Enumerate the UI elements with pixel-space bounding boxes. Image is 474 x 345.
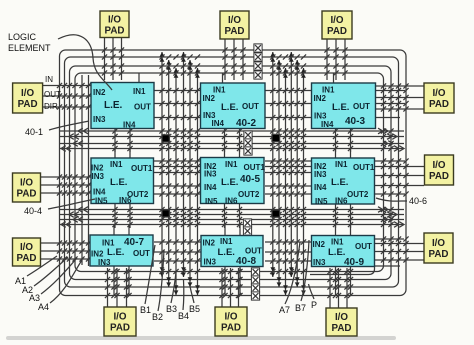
labels B1-B5 with leaders [140, 245, 200, 322]
svg-text:IN4: IN4 [321, 120, 334, 129]
svg-text:PAD: PAD [17, 189, 37, 200]
wires from I/O pad L3 [41, 243, 90, 259]
svg-text:PAD: PAD [105, 25, 125, 36]
I/O pad R3 [424, 233, 453, 263]
svg-text:40-7: 40-7 [124, 237, 144, 248]
svg-text:PAD: PAD [429, 99, 449, 110]
svg-text:I/O: I/O [108, 14, 121, 25]
row2 LE interconnect cols 1-2 [154, 161, 201, 194]
svg-text:40-4: 40-4 [24, 206, 42, 216]
I/O pad T3 [322, 11, 352, 39]
vertical channel between cols 1-2 [160, 52, 200, 295]
I/O pad R1 [424, 83, 454, 113]
svg-text:IN3: IN3 [204, 258, 217, 267]
horizontal channel between rows 2-3 [60, 207, 404, 228]
LE9 right side lines [375, 239, 404, 266]
svg-text:IN5: IN5 [315, 197, 328, 206]
svg-text:I/O: I/O [224, 312, 237, 323]
svg-text:IN2: IN2 [314, 94, 327, 103]
svg-text:IN3: IN3 [313, 258, 326, 267]
X-box stack bottom channel [251, 268, 259, 300]
row2 LE interconnect cols 2-3 [265, 161, 312, 194]
LE 1 input stubs [115, 73, 139, 152]
svg-text:IN4: IN4 [123, 121, 136, 130]
svg-text:L.E.: L.E. [110, 177, 127, 188]
wires from I/O pad B1 [108, 268, 127, 307]
svg-text:PAD: PAD [221, 323, 241, 334]
logic element LE 40-2 [201, 83, 266, 129]
svg-text:IN2: IN2 [313, 240, 326, 249]
I/O pad B2 [215, 307, 247, 336]
labels IN OUT DIR [44, 75, 61, 111]
wires from I/O pad T2 [225, 39, 243, 80]
row1 LE interconnect cols 2-3 [265, 91, 312, 118]
svg-text:PAD: PAD [327, 26, 347, 37]
svg-text:IN2: IN2 [203, 239, 216, 248]
svg-text:I/O: I/O [228, 15, 241, 26]
label 40-1 [25, 121, 89, 137]
svg-text:B7: B7 [295, 303, 306, 313]
svg-text:OUT1: OUT1 [244, 163, 266, 172]
labels A1-A4 with leaders [15, 256, 82, 312]
svg-text:40-9: 40-9 [344, 257, 364, 268]
row3 LE interconnect cols 1-2 [154, 242, 201, 261]
svg-text:IN: IN [45, 75, 53, 84]
ring conductor 4 [75, 73, 384, 272]
I/O pad L1 [13, 83, 43, 113]
svg-text:IN6: IN6 [225, 197, 238, 206]
LE 7 input stubs [114, 225, 129, 297]
label 40-6 [376, 196, 427, 206]
svg-text:40-2: 40-2 [236, 118, 256, 129]
logic element LE 40-4 [91, 158, 154, 206]
svg-text:PAD: PAD [332, 323, 352, 334]
wires from I/O pad T3 [327, 39, 345, 80]
svg-text:DIR: DIR [44, 102, 58, 111]
svg-text:OUT: OUT [242, 102, 259, 111]
LE6 right side lines [375, 161, 405, 194]
svg-text:L.E.: L.E. [104, 100, 123, 111]
I/O pad B3 [326, 308, 357, 336]
horizontal channel between rows 1-2 [60, 128, 404, 151]
svg-text:OUT: OUT [44, 90, 61, 99]
svg-text:OUT1: OUT1 [353, 163, 375, 172]
svg-text:L.E.: L.E. [221, 177, 238, 188]
svg-text:I/O: I/O [330, 15, 343, 26]
svg-text:OUT2: OUT2 [238, 190, 260, 199]
svg-text:OUT: OUT [245, 247, 262, 256]
svg-text:IN1: IN1 [220, 237, 233, 246]
wires from I/O pad R3 [375, 244, 424, 261]
I/O pad R2 [425, 155, 454, 185]
svg-text:OUT1: OUT1 [131, 164, 153, 173]
I/O pad T2 [220, 11, 249, 39]
svg-text:IN4: IN4 [212, 119, 225, 128]
svg-text:L.E.: L.E. [221, 102, 238, 113]
svg-text:IN2: IN2 [93, 88, 106, 97]
I/O pad L2 [13, 173, 41, 202]
svg-text:40-6: 40-6 [409, 196, 427, 206]
svg-text:IN3: IN3 [92, 172, 105, 181]
svg-text:LOGIC: LOGIC [8, 32, 37, 42]
svg-text:L.E.: L.E. [328, 247, 345, 258]
svg-text:I/O: I/O [432, 88, 445, 99]
svg-text:IN1: IN1 [225, 160, 238, 169]
label LOGIC ELEMENT [8, 32, 51, 53]
wires from I/O pad B2 [222, 268, 239, 307]
svg-text:I/O: I/O [20, 178, 33, 189]
svg-text:PAD: PAD [17, 253, 37, 264]
svg-text:OUT2: OUT2 [347, 190, 369, 199]
svg-text:I/O: I/O [113, 312, 126, 323]
I/O pad B1 [104, 307, 136, 336]
LE 5 input stubs [225, 149, 240, 229]
svg-text:L.E.: L.E. [107, 247, 124, 258]
svg-text:I/O: I/O [21, 88, 34, 99]
logic element LE 40-1 [91, 83, 154, 130]
wires from I/O pad B3 [330, 268, 347, 308]
svg-text:P: P [311, 300, 317, 310]
svg-text:IN3: IN3 [93, 115, 106, 124]
svg-text:IN1: IN1 [335, 160, 348, 169]
svg-text:PAD: PAD [429, 249, 449, 260]
svg-text:IN6: IN6 [119, 196, 132, 205]
svg-text:A4: A4 [38, 302, 49, 312]
svg-text:IN6: IN6 [335, 197, 348, 206]
LE 2 input stubs [223, 73, 240, 152]
svg-text:IN2: IN2 [203, 94, 216, 103]
ring conductor 3 [70, 66, 392, 280]
svg-text:B4: B4 [178, 311, 189, 321]
vertical channel between cols 2-3 [270, 52, 306, 295]
logic element LE 40-9 [312, 236, 375, 269]
LE 3 input stubs [334, 73, 351, 152]
svg-text:I/O: I/O [432, 160, 445, 171]
black square junction 3 [162, 210, 169, 217]
svg-text:OUT: OUT [353, 102, 370, 111]
wires from I/O pad R2 [375, 167, 424, 186]
svg-text:ELEMENT: ELEMENT [8, 43, 51, 53]
logic element LE 40-7 [90, 235, 153, 267]
svg-text:B1: B1 [140, 305, 151, 315]
svg-text:IN4: IN4 [93, 188, 106, 197]
svg-text:I/O: I/O [20, 242, 33, 253]
svg-text:PAD: PAD [110, 323, 130, 334]
wires from I/O pad L2 [41, 177, 91, 193]
svg-text:PAD: PAD [429, 171, 449, 182]
wires from I/O pad R1 [376, 86, 424, 109]
X-box stack channel rows 2-3 [243, 219, 251, 235]
wires from I/O pad L1 [43, 86, 91, 108]
svg-text:40-1: 40-1 [25, 127, 43, 137]
svg-text:B3: B3 [166, 304, 177, 314]
logic element LE 40-6 [312, 158, 375, 206]
inner corner conductor bottom-right [310, 267, 375, 275]
labels A7 B7 P with leaders [279, 240, 317, 315]
svg-text:L.E.: L.E. [218, 247, 235, 258]
svg-text:OUT: OUT [355, 242, 372, 251]
svg-text:I/O: I/O [432, 238, 445, 249]
svg-text:IN5: IN5 [95, 197, 108, 206]
black square junction 4 [272, 210, 280, 217]
svg-text:L.E.: L.E. [332, 102, 349, 113]
svg-text:40-8: 40-8 [236, 256, 256, 267]
X-box stack channel rows 1-2 [244, 131, 252, 155]
svg-text:L.E.: L.E. [331, 177, 348, 188]
svg-text:IN3: IN3 [204, 170, 217, 179]
svg-text:IN1: IN1 [110, 160, 123, 169]
LE 8 input stubs [225, 225, 240, 297]
row1 LE interconnect cols 1-2 [154, 91, 201, 118]
svg-text:IN1: IN1 [133, 87, 146, 96]
svg-text:A7: A7 [279, 305, 290, 315]
label 40-4 [24, 199, 95, 216]
svg-text:OUT: OUT [134, 103, 151, 112]
ring conductor 2 [65, 57, 399, 287]
X-box stack top channel [254, 44, 262, 79]
svg-text:40-3: 40-3 [345, 116, 365, 127]
svg-text:IN4: IN4 [204, 183, 217, 192]
LE 6 input stubs [336, 149, 351, 229]
svg-text:PAD: PAD [18, 99, 38, 110]
ring conductor 1 [60, 50, 407, 296]
logic element LE 40-5 [201, 158, 266, 207]
I/O pad L3 [13, 238, 41, 266]
row3 LE interconnect cols 2-3 [265, 242, 312, 261]
black square junction 1 [162, 135, 169, 142]
wires from I/O pad T1 [105, 38, 122, 80]
inner left vertical conductors [82, 75, 89, 266]
logic element LE 40-8 [201, 236, 263, 268]
svg-text:PAD: PAD [225, 26, 245, 37]
svg-text:IN3: IN3 [314, 170, 327, 179]
svg-text:IN5: IN5 [205, 197, 218, 206]
svg-text:I/O: I/O [335, 312, 348, 323]
svg-text:IN1: IN1 [331, 238, 344, 247]
black square junction 2 [272, 134, 280, 141]
svg-text:B5: B5 [189, 304, 200, 314]
logic element LE 40-3 [312, 83, 376, 129]
callout LOGIC ELEMENT to IN2 [58, 35, 112, 90]
LE 4 input stubs [115, 149, 130, 229]
svg-text:IN4: IN4 [314, 183, 327, 192]
LE 9 input stubs [336, 225, 351, 297]
programmable crossing ticks [57, 47, 409, 298]
svg-text:B2: B2 [152, 312, 163, 322]
svg-text:OUT: OUT [133, 249, 150, 258]
I/O pad T1 [100, 11, 129, 38]
svg-text:40-5: 40-5 [240, 174, 260, 185]
LE3 right side lines [376, 91, 405, 118]
svg-text:IN3: IN3 [98, 258, 111, 267]
